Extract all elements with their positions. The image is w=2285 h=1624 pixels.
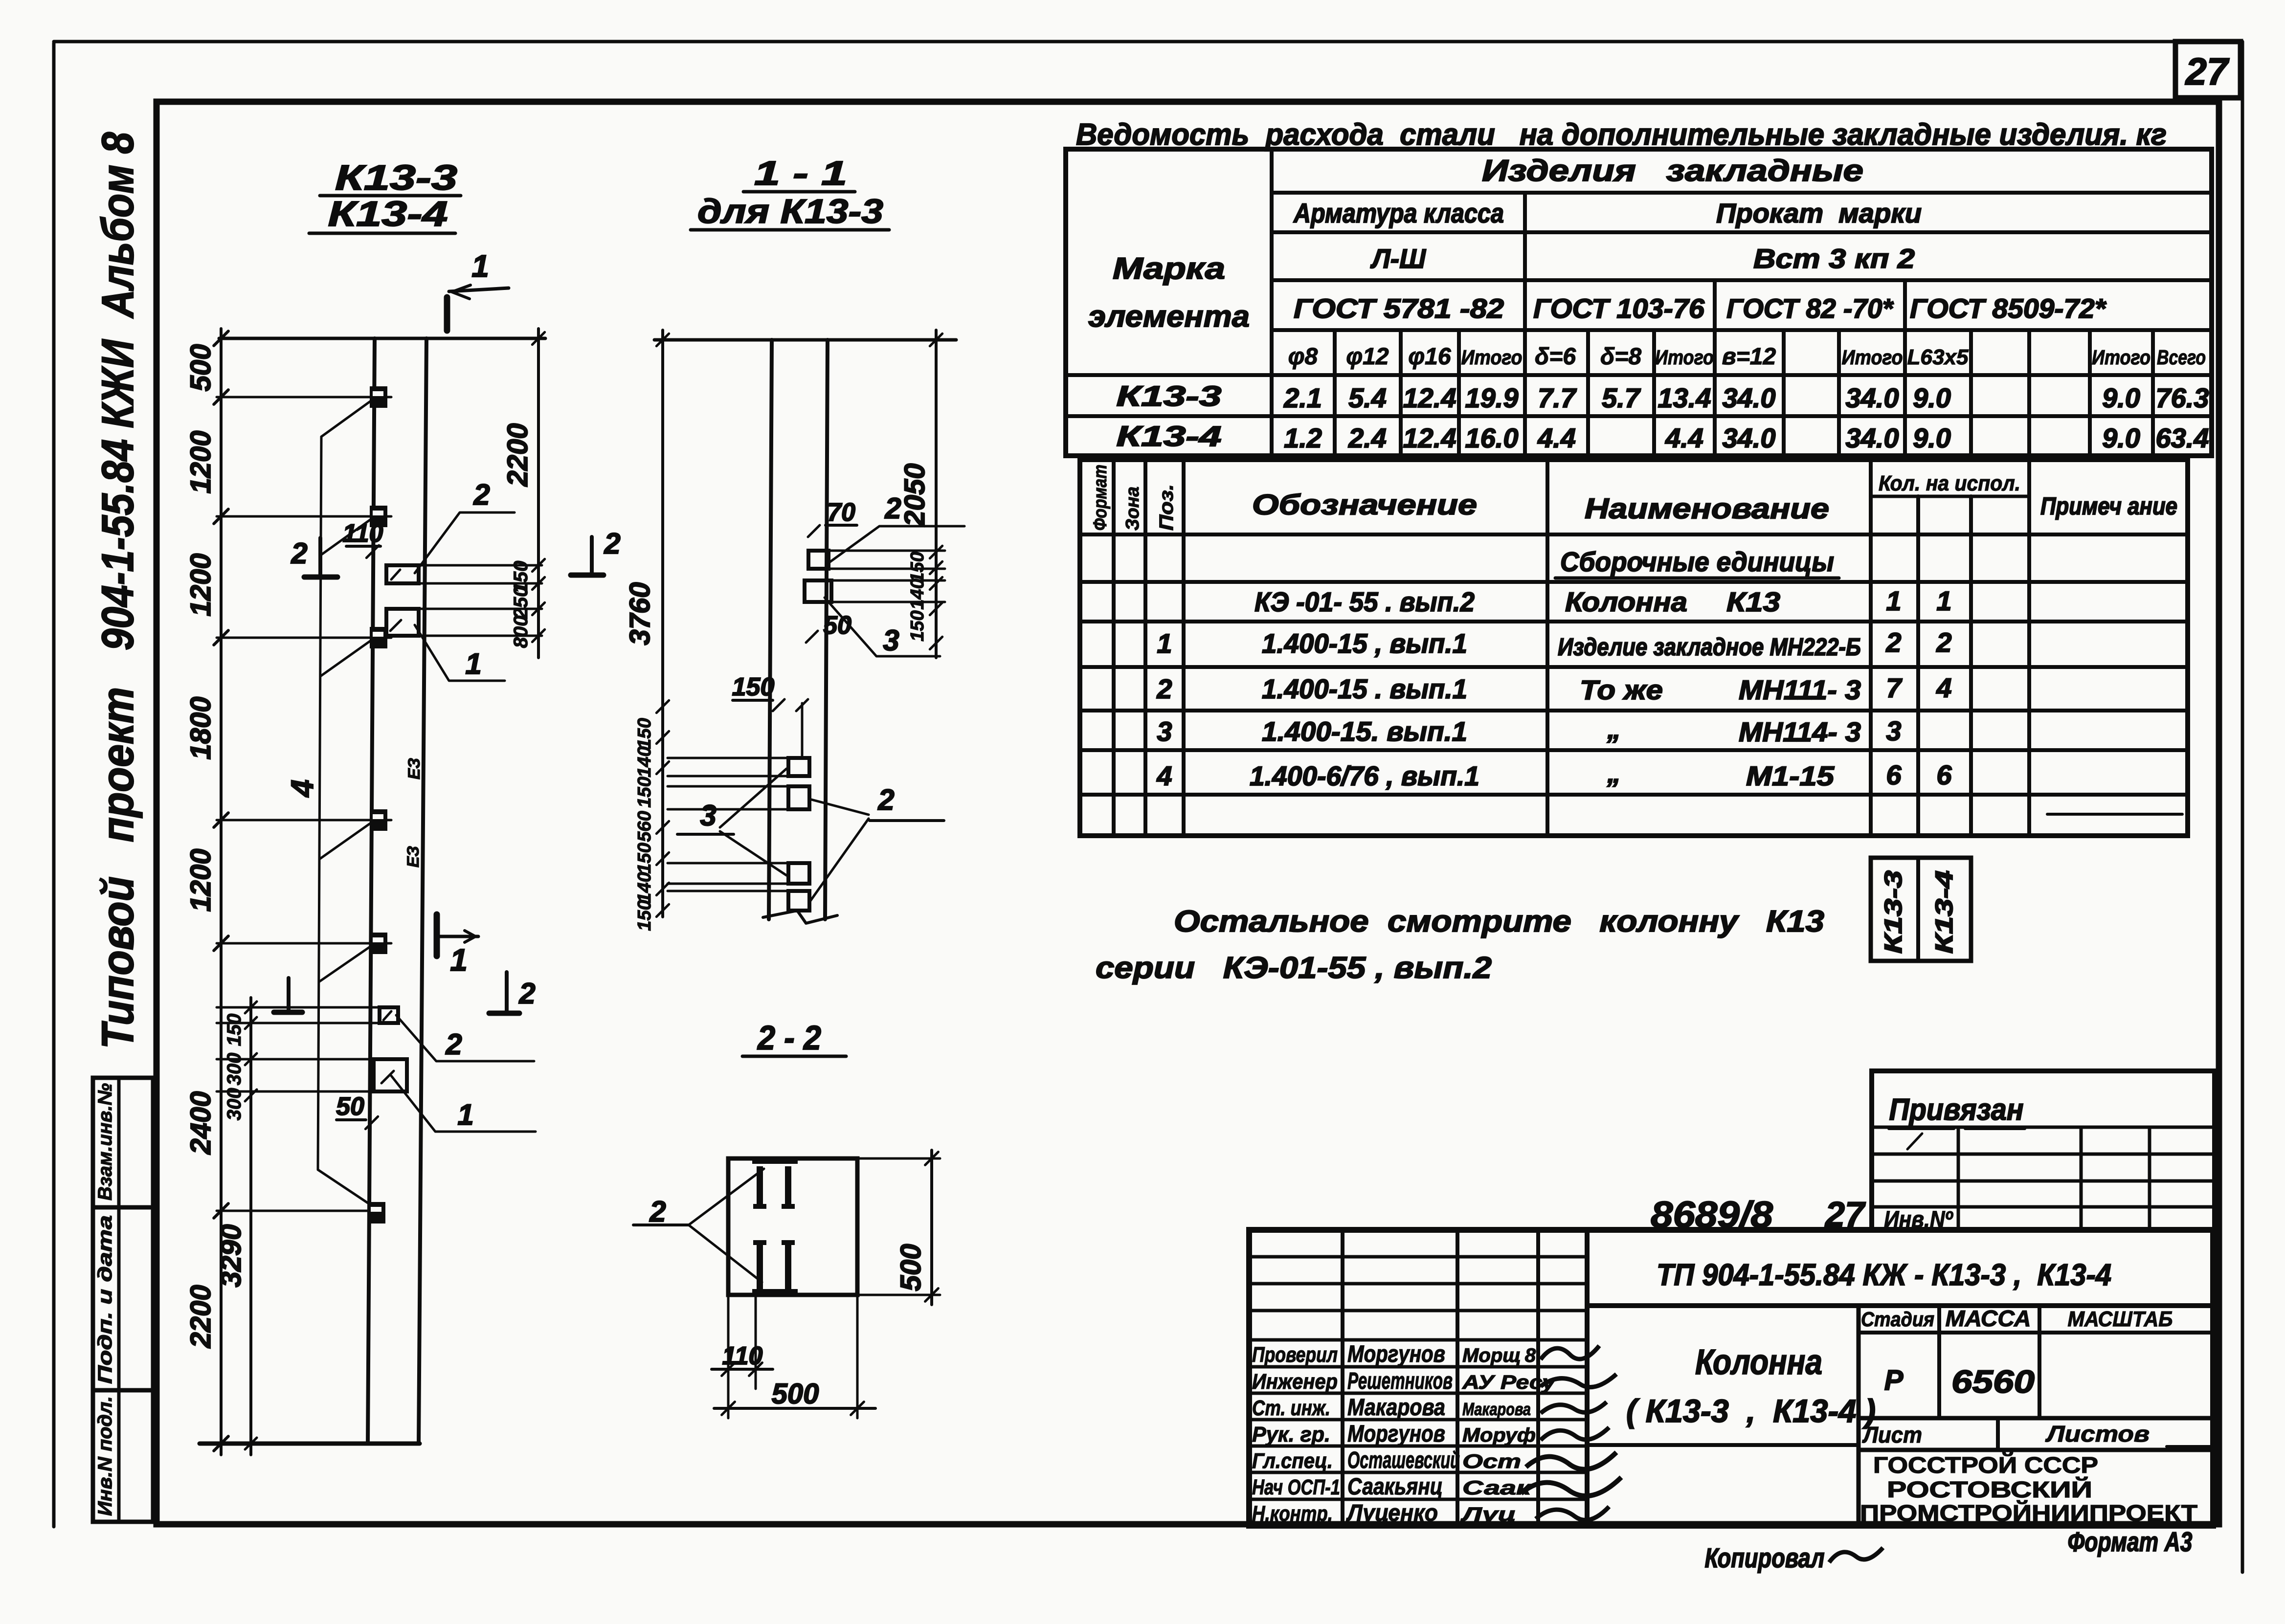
svg-text:2: 2 — [473, 478, 490, 511]
svg-text:Итого: Итого — [2092, 346, 2151, 369]
svg-text:Морщ 8: Морщ 8 — [1462, 1345, 1536, 1366]
svg-text:Проверил: Проверил — [1252, 1343, 1338, 1367]
steel table outer box — [1066, 149, 2212, 456]
svg-text:МАССА: МАССА — [1946, 1306, 2031, 1331]
spec col-count bottom box — [1871, 858, 1971, 961]
section 1-1 subtitle underline — [691, 228, 889, 232]
svg-text:70: 70 — [827, 498, 855, 527]
svg-text:Инженер: Инженер — [1252, 1370, 1338, 1394]
svg-text:34.0: 34.0 — [1723, 423, 1776, 453]
svg-text:34.0: 34.0 — [1846, 382, 1899, 413]
position 4 line — [318, 437, 321, 1170]
svg-text:К13-4: К13-4 — [1117, 421, 1222, 452]
section 1-1 right dim line — [935, 330, 938, 658]
svg-text:2.4: 2.4 — [1348, 423, 1387, 453]
svg-text:1: 1 — [1936, 585, 1951, 616]
svg-text:для К13-3: для К13-3 — [697, 192, 883, 230]
svg-text:Моргунов: Моргунов — [1347, 1421, 1445, 1447]
svg-text:φ8: φ8 — [1288, 344, 1318, 370]
svg-text:φ12: φ12 — [1346, 344, 1389, 370]
svg-text:2: 2 — [1885, 627, 1901, 658]
svg-text:φ16: φ16 — [1408, 344, 1451, 370]
svg-text:9.0: 9.0 — [1913, 382, 1951, 413]
lower corbel plate 2 — [380, 1007, 398, 1023]
svg-text:Листов: Листов — [2045, 1421, 2150, 1446]
section mark 2 lower right — [505, 972, 509, 1010]
svg-text:Марка: Марка — [1113, 252, 1225, 286]
left dim chain line — [220, 329, 223, 1455]
svg-text:Лист: Лист — [1862, 1422, 1922, 1447]
svg-text:2200: 2200 — [185, 1285, 217, 1348]
svg-text:Рук. гр.: Рук. гр. — [1252, 1423, 1330, 1446]
spec table col-count sub header line — [1871, 495, 2029, 498]
svg-text:150: 150 — [732, 673, 775, 701]
svg-text:1.400-15. вып.1: 1.400-15. вып.1 — [1262, 716, 1467, 747]
svg-text:110: 110 — [722, 1342, 763, 1370]
section 1-1 title underline — [743, 190, 855, 194]
svg-text:2: 2 — [604, 527, 620, 560]
section 2-2 right dim 500 — [857, 1157, 940, 1160]
svg-text:150: 150 — [224, 1014, 245, 1046]
svg-text:1 - 1: 1 - 1 — [754, 154, 847, 192]
svg-text:Стадия: Стадия — [1861, 1308, 1934, 1331]
svg-text:2: 2 — [884, 492, 901, 525]
svg-text:9.0: 9.0 — [2102, 423, 2140, 453]
svg-text:Примеч ание: Примеч ание — [2040, 492, 2177, 520]
svg-text:5.7: 5.7 — [1602, 382, 1641, 413]
svg-text:150: 150 — [907, 610, 928, 641]
svg-text:Привязан: Привязан — [1889, 1093, 2024, 1127]
svg-text:1: 1 — [1157, 628, 1172, 659]
svg-text:150: 150 — [634, 843, 655, 873]
svg-text:12.4: 12.4 — [1403, 382, 1456, 413]
svg-text:Формат А3: Формат А3 — [2068, 1526, 2193, 1557]
svg-text:150: 150 — [634, 718, 655, 749]
section 1-1 left dim ticks — [656, 334, 669, 346]
column bottom line — [200, 1442, 420, 1446]
svg-text:13.4: 13.4 — [1658, 382, 1711, 413]
svg-text:1.400-15 , вып.1: 1.400-15 , вып.1 — [1262, 628, 1467, 659]
left dim extension lines — [217, 396, 391, 399]
svg-text:500: 500 — [185, 344, 217, 392]
svg-text:Итого: Итого — [1842, 346, 1903, 369]
embedded plate leader diagonals — [321, 401, 371, 437]
privyazan tick — [1907, 1134, 1922, 1149]
leader to plate 2 — [415, 512, 515, 573]
svg-text:МН111- 3: МН111- 3 — [1739, 674, 1861, 705]
svg-text:МАСШТАБ: МАСШТАБ — [2068, 1307, 2173, 1331]
svg-text:3: 3 — [1157, 716, 1172, 747]
privyazan grid cols — [1957, 1127, 1960, 1230]
svg-text:Саакьянц: Саакьянц — [1347, 1474, 1443, 1500]
section 1-1 left dim line — [661, 330, 664, 917]
svg-text:серии КЭ-01-55 , вып.2: серии КЭ-01-55 , вып.2 — [1096, 951, 1492, 985]
svg-text:Всего: Всего — [2157, 346, 2206, 369]
svg-text:110: 110 — [343, 519, 383, 548]
svg-text:элемента: элемента — [1088, 300, 1250, 334]
signature squiggles — [1541, 1346, 1599, 1359]
svg-text:2: 2 — [291, 537, 307, 570]
svg-text:„: „ — [1607, 713, 1621, 744]
svg-text:1200: 1200 — [185, 848, 217, 912]
svg-text:7.7: 7.7 — [1538, 382, 1577, 413]
svg-text:150: 150 — [907, 552, 928, 582]
section 2-2 body — [728, 1158, 857, 1295]
svg-text:3: 3 — [1886, 715, 1901, 746]
svg-text:Ост: Ост — [1462, 1451, 1521, 1472]
svg-text:ГОСТ 82 -70*: ГОСТ 82 -70* — [1726, 293, 1894, 324]
svg-text:Поз.: Поз. — [1156, 484, 1177, 531]
privyazan grid rows — [1872, 1126, 2215, 1129]
svg-text:500: 500 — [772, 1378, 819, 1410]
svg-text:К13-3: К13-3 — [335, 158, 457, 198]
section 1-1 lower plate extensions — [668, 757, 788, 759]
svg-text:4: 4 — [1936, 672, 1951, 703]
svg-text:Арматура класса: Арматура класса — [1293, 198, 1504, 228]
svg-text:ПРОМСТРОЙНИИПРОЕКТ: ПРОМСТРОЙНИИПРОЕКТ — [1860, 1500, 2197, 1526]
svg-text:δ=8: δ=8 — [1600, 344, 1641, 370]
svg-text:2.1: 2.1 — [1283, 382, 1322, 413]
spec table outer box — [1080, 460, 2188, 836]
lower corbel extension lines — [217, 1006, 380, 1009]
svg-text:63.4: 63.4 — [2156, 423, 2209, 453]
svg-text:560: 560 — [634, 811, 655, 842]
svg-text:„: „ — [1607, 757, 1621, 788]
section mark 2 upper right — [590, 537, 594, 573]
svg-text:Копировал: Копировал — [1705, 1542, 1825, 1573]
svg-text:50: 50 — [336, 1092, 364, 1121]
svg-text:1800: 1800 — [185, 696, 217, 759]
margin stamp boxes — [93, 1078, 153, 1522]
svg-text:6560: 6560 — [1951, 1363, 2035, 1400]
svg-text:250: 250 — [510, 586, 532, 620]
svg-text:Макарова: Макарова — [1462, 1399, 1531, 1419]
svg-text:34.0: 34.0 — [1723, 382, 1776, 413]
svg-text:Луценко: Луценко — [1346, 1500, 1438, 1526]
svg-text:2: 2 — [518, 977, 535, 1010]
svg-text:904-1-55.84 КЖИ Альбом 8: 904-1-55.84 КЖИ Альбом 8 — [93, 132, 143, 650]
drawing inner frame — [157, 102, 2219, 1524]
svg-text:ЕЗ: ЕЗ — [404, 846, 423, 868]
svg-text:ГОСТ 8509-72*: ГОСТ 8509-72* — [1910, 293, 2106, 324]
svg-text:2: 2 — [1156, 673, 1172, 704]
svg-text:δ=6: δ=6 — [1535, 344, 1576, 370]
leader to lower plate 2 — [396, 1015, 534, 1061]
svg-text:9.0: 9.0 — [2102, 382, 2140, 413]
section 1-1 plate 2 mark — [808, 551, 829, 569]
svg-text:300: 300 — [224, 1088, 245, 1121]
svg-text:6: 6 — [1936, 759, 1952, 790]
title block outer box — [1249, 1230, 2213, 1526]
svg-text:ГОССТРОЙ СССР: ГОССТРОЙ СССР — [1873, 1452, 2098, 1478]
svg-text:Обозначение: Обозначение — [1252, 489, 1477, 521]
svg-text:Ст. инж.: Ст. инж. — [1252, 1396, 1330, 1420]
svg-text:5.4: 5.4 — [1348, 382, 1387, 413]
spec table vertical lines — [1112, 460, 1116, 836]
svg-text:ГОСТ 5781 -82: ГОСТ 5781 -82 — [1294, 293, 1504, 324]
svg-text:34.0: 34.0 — [1846, 423, 1899, 453]
svg-text:1: 1 — [450, 942, 468, 978]
svg-text:1200: 1200 — [185, 430, 217, 493]
svg-text:ТП 904-1-55.84 КЖ - К13-3 , К: ТП 904-1-55.84 КЖ - К13-3 , К13-4 — [1657, 1258, 2111, 1292]
svg-text:К13-4: К13-4 — [328, 195, 448, 234]
sheet outer border left — [52, 43, 56, 1527]
svg-text:2050: 2050 — [899, 463, 931, 527]
sheet outer border top — [54, 40, 2177, 44]
inner dim chain line — [249, 998, 252, 1455]
section 1-1 right dim ticks — [930, 334, 942, 346]
svg-text:Кол. на испол.: Кол. на испол. — [1879, 471, 2020, 495]
svg-text:КЭ -01- 55 . вып.2: КЭ -01- 55 . вып.2 — [1255, 586, 1475, 617]
svg-text:1: 1 — [1886, 585, 1901, 616]
svg-text:7: 7 — [1886, 672, 1903, 703]
section 2-2 channel bottom flange — [752, 1289, 798, 1296]
column body right edge — [419, 338, 426, 1444]
svg-text:МН114- 3: МН114- 3 — [1739, 716, 1861, 747]
section 1-1 bottom break — [763, 911, 837, 923]
svg-text:300: 300 — [224, 1053, 245, 1086]
svg-text:L63х5: L63х5 — [1907, 345, 1969, 369]
svg-text:Гл.спец.: Гл.спец. — [1252, 1449, 1333, 1473]
svg-text:1200: 1200 — [185, 553, 217, 616]
right dim chain ticks — [532, 332, 544, 344]
svg-text:4: 4 — [285, 779, 320, 798]
svg-text:Колонна: Колонна — [1565, 586, 1687, 617]
svg-text:1: 1 — [471, 248, 489, 284]
section mark 1 top — [444, 297, 450, 331]
svg-text:1: 1 — [465, 647, 481, 680]
inner dim chain ticks — [245, 1001, 257, 1013]
svg-text:Типовой проект: Типовой проект — [93, 687, 143, 1049]
svg-text:800: 800 — [510, 616, 532, 648]
svg-text:50: 50 — [823, 611, 851, 640]
left dim chain ticks — [214, 331, 228, 346]
svg-text:Изделие закладное МН222-Б: Изделие закладное МН222-Б — [1558, 633, 1861, 661]
svg-text:4.4: 4.4 — [1665, 423, 1703, 453]
svg-text:Моруф: Моруф — [1462, 1424, 1536, 1446]
svg-text:Подп. и дата: Подп. и дата — [94, 1215, 116, 1384]
svg-text:То же: То же — [1580, 674, 1663, 705]
svg-text:Саак: Саак — [1462, 1477, 1532, 1499]
svg-text:19.9: 19.9 — [1465, 382, 1519, 413]
svg-text:М1-15: М1-15 — [1746, 760, 1835, 791]
svg-text:( К13-3 , К13-4 ): ( К13-3 , К13-4 ) — [1626, 1393, 1876, 1429]
svg-text:140: 140 — [634, 872, 655, 903]
section 1-1 plate 3 mark — [805, 580, 831, 602]
section 2-2 channel feet — [753, 1204, 766, 1209]
svg-text:2: 2 — [1936, 627, 1951, 658]
section 1-1 column right edge — [825, 340, 828, 919]
svg-text:К13: К13 — [1726, 586, 1780, 617]
section 2-2 dim 500 bottom — [714, 1407, 875, 1410]
svg-text:Зона: Зона — [1122, 487, 1143, 531]
svg-text:Изделия закладные: Изделия закладные — [1482, 154, 1863, 188]
svg-text:3: 3 — [883, 624, 899, 657]
svg-text:140: 140 — [907, 578, 928, 609]
section 1-1 lower plates — [788, 758, 809, 776]
title block signature grid verticals — [1341, 1230, 1344, 1526]
svg-text:Л-Ш: Л-Ш — [1370, 243, 1426, 274]
svg-text:12.4: 12.4 — [1403, 423, 1456, 453]
elevation title underline 2 — [309, 232, 455, 235]
svg-text:Колонна: Колонна — [1695, 1343, 1822, 1382]
svg-text:2: 2 — [445, 1028, 462, 1061]
svg-text:1.2: 1.2 — [1284, 423, 1322, 453]
svg-text:Итого: Итого — [1461, 346, 1523, 369]
spec table horizontal lines — [1080, 533, 2188, 536]
section 2-2 channel webs lower — [757, 1240, 763, 1290]
svg-text:в=12: в=12 — [1722, 344, 1776, 370]
svg-text:Нач ОСП-1: Нач ОСП-1 — [1252, 1475, 1340, 1499]
svg-text:1: 1 — [457, 1098, 473, 1131]
svg-text:150: 150 — [634, 777, 655, 807]
svg-text:Моргунов: Моргунов — [1347, 1341, 1445, 1367]
svg-text:500: 500 — [895, 1244, 927, 1291]
upper corbel plate 1 — [386, 609, 419, 636]
svg-text:3760: 3760 — [624, 582, 656, 645]
section 1-1 leader 3 — [825, 598, 940, 656]
svg-text:Макарова: Макарова — [1347, 1395, 1445, 1421]
svg-text:4: 4 — [1156, 760, 1172, 791]
svg-text:3290: 3290 — [215, 1224, 247, 1287]
svg-text:6: 6 — [1886, 759, 1902, 790]
svg-text:2400: 2400 — [185, 1091, 217, 1155]
leader to lower plate 1 — [391, 1076, 536, 1132]
svg-text:140: 140 — [634, 746, 655, 777]
svg-text:2 - 2: 2 - 2 — [757, 1019, 821, 1057]
section 2-2 channel top flange — [752, 1157, 798, 1164]
column top line — [219, 337, 545, 340]
svg-text:Луц: Луц — [1460, 1504, 1516, 1525]
svg-text:Сборочные единицы: Сборочные единицы — [1560, 546, 1834, 577]
lower corbel plate 1 — [374, 1059, 407, 1091]
svg-text:2200: 2200 — [502, 423, 534, 487]
privyazan box — [1872, 1071, 2215, 1230]
svg-text:ГОСТ 103-76: ГОСТ 103-76 — [1533, 293, 1705, 324]
svg-text:9.0: 9.0 — [1913, 423, 1951, 453]
section 2-2 title underline — [742, 1055, 846, 1058]
embedded plate marks on column edge — [370, 386, 387, 408]
title block right part lines — [1587, 1303, 2213, 1308]
svg-text:АУ Ресу: АУ Ресу — [1462, 1372, 1556, 1393]
svg-text:Н.контр.: Н.контр. — [1252, 1502, 1333, 1526]
spec table note dash — [2047, 813, 2182, 816]
svg-text:Итого: Итого — [1655, 346, 1714, 369]
section 1-1 lower leader 3 — [720, 769, 786, 827]
section 1-1 plate extension lines — [829, 550, 945, 552]
svg-text:Ведомость расхода стали на: Ведомость расхода стали на дополнительны… — [1076, 118, 2167, 152]
section 1-1 lower leader 2 — [809, 799, 869, 815]
svg-text:Осташевский: Осташевский — [1347, 1447, 1460, 1473]
right dim chain line — [537, 329, 540, 658]
svg-text:1.400-15 . вып.1: 1.400-15 . вып.1 — [1262, 673, 1467, 704]
svg-text:Формат: Формат — [1090, 465, 1111, 531]
svg-text:РОСТОВСКИЙ: РОСТОВСКИЙ — [1887, 1477, 2092, 1502]
svg-text:150: 150 — [634, 900, 655, 931]
section 1-1 leader 2 — [828, 526, 964, 563]
svg-text:Остальное смотрите колонну: Остальное смотрите колонну К13 — [1174, 905, 1824, 938]
upper corbel plate 2 — [386, 565, 419, 583]
title block signature grid rows — [1249, 1255, 1587, 1259]
svg-text:4.4: 4.4 — [1537, 423, 1576, 453]
section mark 1 mid right — [434, 914, 440, 956]
elevation title underline 1 — [320, 194, 461, 198]
section 2-2 leader 2 — [689, 1169, 764, 1225]
svg-text:16.0: 16.0 — [1465, 423, 1519, 453]
svg-text:Р: Р — [1884, 1364, 1904, 1396]
svg-text:Прокат марки: Прокат марки — [1716, 198, 1922, 228]
svg-text:2: 2 — [877, 783, 894, 816]
svg-text:Решетников: Решетников — [1347, 1368, 1453, 1394]
svg-text:1.400-6/76 , вып.1: 1.400-6/76 , вып.1 — [1250, 760, 1479, 791]
upper corbel extension lines — [419, 564, 542, 567]
svg-text:27: 27 — [2185, 50, 2230, 93]
sheet outer border right — [2241, 42, 2244, 1572]
section 2-2 channel webs upper — [757, 1166, 763, 1209]
section 2-2 dim 110 — [712, 1368, 773, 1371]
page number box — [2175, 42, 2240, 98]
leader to plate 1 — [415, 625, 505, 681]
steel table horizontal lines — [1272, 191, 2212, 195]
svg-text:ЕЗ: ЕЗ — [405, 758, 424, 779]
svg-text:Наименование: Наименование — [1585, 493, 1829, 525]
svg-text:3: 3 — [700, 799, 716, 832]
svg-text:76.3: 76.3 — [2156, 382, 2209, 413]
section 1-1 column left edge — [769, 340, 772, 919]
svg-text:2: 2 — [649, 1195, 666, 1228]
section 2-2 bottom dims — [727, 1295, 730, 1418]
column body left edge — [368, 338, 375, 1444]
svg-text:К13-4: К13-4 — [1930, 870, 1958, 954]
svg-text:К13-3: К13-3 — [1117, 380, 1222, 412]
svg-text:Взам.инв.№: Взам.инв.№ — [94, 1083, 116, 1201]
steel table vertical lines — [1270, 149, 1274, 456]
svg-text:Вст 3 кп 2: Вст 3 кп 2 — [1753, 243, 1915, 274]
svg-text:Инв.N подл.: Инв.N подл. — [94, 1396, 116, 1516]
section mark 2 lower left — [287, 978, 291, 1010]
svg-text:К13-3: К13-3 — [1880, 870, 1907, 954]
section 1-1 top line — [654, 338, 956, 342]
